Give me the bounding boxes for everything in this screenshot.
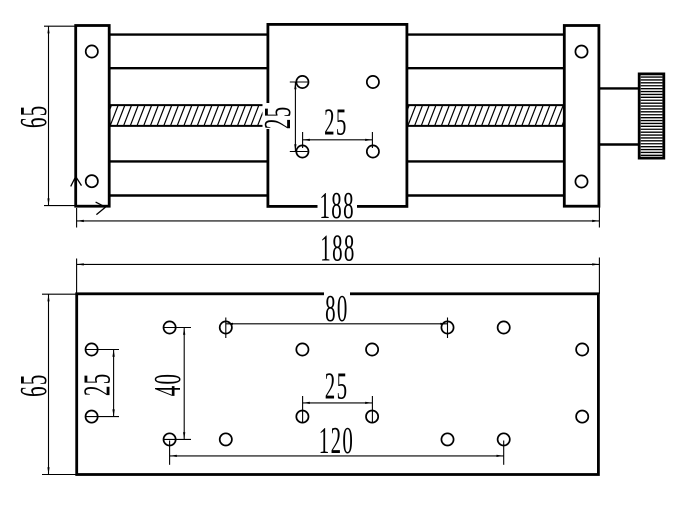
svg-text:25: 25 — [325, 365, 349, 407]
guide rail lower (left segment) — [109, 161, 268, 195]
dimension 25 right (bottom view) extension ticks — [303, 396, 373, 423]
carriage hole top-right — [367, 76, 379, 88]
dimension 188 (top view) dimension line — [77, 220, 600, 222]
base plate hole row D x=225.8 — [220, 433, 232, 445]
dimension 65 (top view) dimension line — [47, 26, 49, 205]
dimension 25 horizontal (carriage) extension ticks — [303, 132, 373, 148]
dimension 25 left (bottom view) extension ticks — [86, 350, 119, 417]
lead screw (left segment, hatched) — [109, 105, 268, 126]
dimension 25 horizontal (carriage) dimension line — [303, 139, 373, 141]
base plate hole row B x=372.1 — [366, 343, 378, 355]
base plate hole row A x=225.8 — [220, 321, 232, 333]
base plate hole row D x=169.6 — [164, 433, 176, 445]
base plate hole row B x=91.6 — [86, 343, 98, 355]
dimension text 25 horizontal (carriage) — [324, 101, 348, 143]
base plate hole row D x=503.7 — [498, 433, 510, 445]
dimension 65 (bottom view) dimension line — [47, 294, 49, 474]
dimension 188 (bottom view) dimension line — [77, 263, 600, 265]
base plate hole row A x=169.6 — [164, 321, 176, 333]
dimension text 80 — [324, 287, 350, 329]
knurled knob — [639, 74, 664, 158]
carriage hole top-left — [296, 76, 308, 88]
dimension 25 vertical (carriage) extension ticks — [290, 82, 308, 152]
svg-text:80: 80 — [325, 287, 349, 329]
svg-text:188: 188 — [320, 184, 355, 226]
guide rail upper (left segment) — [109, 35, 268, 69]
svg-text:25: 25 — [256, 106, 298, 130]
left plate hole upper — [86, 45, 98, 57]
dimension 25 vertical (carriage) dimension line — [294, 82, 296, 152]
base plate hole row C x=302.4 — [296, 411, 308, 423]
guide rail lower (right segment) — [407, 161, 564, 195]
base plate (bottom view) — [77, 294, 599, 475]
dimension 120 dimension line — [170, 455, 504, 457]
dimension text 25 rotated (carriage) — [256, 103, 298, 129]
right end plate — [564, 26, 599, 207]
dimension 40 dimension line — [183, 328, 185, 440]
base plate hole row A x=503.7 — [498, 321, 510, 333]
svg-text:40: 40 — [147, 373, 189, 397]
dimension 25 left (bottom view) dimension line — [112, 350, 114, 417]
svg-text:65: 65 — [13, 104, 55, 128]
dimension 80 extension ticks — [226, 318, 448, 339]
base plate hole row D x=447.5 — [441, 433, 453, 445]
right plate hole lower — [575, 175, 587, 187]
leader arrow up (left plate bottom) — [71, 177, 82, 187]
base plate hole row C x=582.2 — [576, 411, 588, 423]
dimension 188 (top view) extension lines — [77, 208, 600, 228]
svg-text:65: 65 — [13, 373, 55, 397]
carriage block — [268, 24, 407, 206]
base plate hole row C x=91.6 — [86, 411, 98, 423]
base plate hole row C x=372.1 — [366, 411, 378, 423]
dimension 188 (bottom view) extension lines — [77, 258, 600, 294]
left end plate — [76, 26, 110, 207]
svg-text:188: 188 — [320, 227, 355, 269]
svg-text:25: 25 — [324, 101, 348, 143]
carriage hole bottom-right — [367, 145, 379, 157]
knob shaft — [599, 88, 639, 144]
base plate hole row B x=302.4 — [296, 343, 308, 355]
dimension 65 (bottom view) extension lines — [42, 294, 76, 474]
dimension 120 extension ticks — [170, 441, 504, 465]
dimension 80 dimension line — [226, 323, 448, 325]
base plate hole row B x=582.2 — [576, 343, 588, 355]
leader arrow right (left plate bottom) — [96, 202, 106, 215]
left plate hole lower — [86, 175, 98, 187]
dimension 65 (top view) extension lines — [44, 26, 76, 205]
dimension text 188 (top view) — [318, 184, 358, 226]
lead screw (right segment, hatched) — [407, 105, 564, 126]
dimension 40 extension ticks — [164, 328, 191, 440]
carriage hole bottom-left — [296, 145, 308, 157]
guide rail upper (right segment) — [407, 35, 564, 69]
right plate hole upper — [575, 46, 587, 58]
dimension 25 right (bottom view) dimension line — [303, 402, 373, 404]
base plate hole row A x=447.5 — [441, 321, 453, 333]
svg-text:25: 25 — [76, 372, 118, 396]
svg-text:120: 120 — [319, 419, 354, 461]
